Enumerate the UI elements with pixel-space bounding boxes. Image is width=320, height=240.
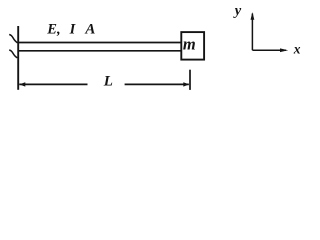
svg-text:E,: E, (46, 21, 60, 37)
wall (fixed support line, also left extension line) (17, 26, 19, 90)
beam bottom line (18, 50, 182, 52)
svg-text:I: I (69, 21, 77, 37)
dimension line right segment (125, 83, 189, 85)
dimension line left segment (19, 83, 87, 85)
svg-text:y: y (233, 3, 242, 19)
beam top line (18, 42, 182, 44)
svg-text:A: A (84, 21, 95, 37)
dimension right arrowhead (183, 82, 189, 86)
x axis line (252, 49, 286, 51)
y axis line (251, 14, 253, 51)
dimension left arrowhead (19, 82, 25, 86)
y axis arrowhead (251, 12, 255, 20)
right extension line (189, 70, 191, 90)
wall hatch 2 (9, 50, 17, 58)
wall hatch 1 (9, 35, 17, 43)
svg-text:L: L (103, 74, 113, 90)
svg-text:m: m (183, 34, 196, 53)
svg-text:x: x (293, 42, 301, 57)
x axis arrowhead (280, 48, 288, 52)
mass box (181, 32, 204, 60)
